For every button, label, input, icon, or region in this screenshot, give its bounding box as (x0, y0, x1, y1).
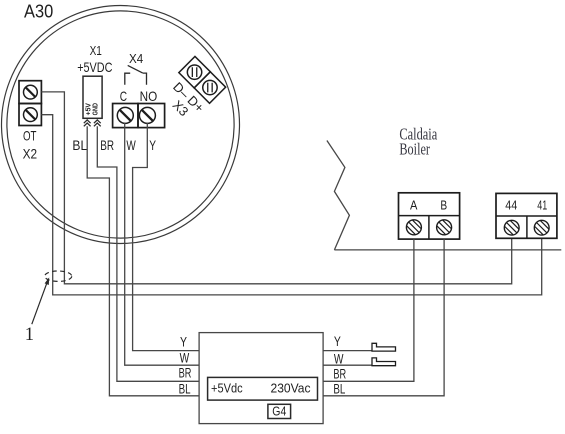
connector X1 body (83, 76, 102, 118)
enclosure A30 outer circle (2, 6, 240, 244)
svg-text:BR: BR (100, 137, 114, 153)
terminal block X4 NO cell (138, 104, 165, 128)
screw NO (139, 107, 155, 123)
svg-text:B: B (440, 199, 447, 213)
svg-text:W: W (180, 350, 190, 365)
callout 1 leader line (32, 279, 49, 325)
screw X3-2 (200, 77, 220, 97)
wire BL from X1 +5V pin to G4 (87, 126, 199, 396)
switch X4 contact C hook (125, 73, 130, 85)
svg-text:A30: A30 (24, 2, 53, 22)
svg-text:A: A (410, 199, 418, 213)
svg-text:NO: NO (140, 88, 158, 104)
svg-text:G4: G4 (272, 405, 286, 419)
svg-text:W: W (126, 137, 136, 153)
terminal block 44/41 body (496, 193, 557, 238)
screw C (117, 107, 133, 123)
pin GND chevrons (94, 120, 101, 126)
svg-text:GND: GND (90, 103, 99, 116)
screw X2-2 (24, 108, 38, 122)
screw X3-1 (184, 62, 204, 82)
svg-text:C: C (120, 88, 127, 104)
wire OT-b from X2 bottom screw to boiler 41 (41, 115, 541, 295)
switch X4 blade (128, 65, 143, 73)
wire W right of G4 (323, 364, 395, 366)
screw A (406, 220, 421, 235)
terminal block X2 (OT) (19, 81, 41, 126)
wire Y from contact NO to G4 (133, 123, 200, 351)
switch X4 contact NO post (143, 73, 147, 85)
wire W from contact C to G4 (125, 123, 199, 365)
svg-text:W: W (334, 352, 344, 367)
controller G4 outline (199, 333, 323, 424)
svg-text:+5Vdc: +5Vdc (211, 381, 243, 396)
svg-text:Y: Y (149, 137, 156, 153)
terminal block X3 (rotated -45deg) (179, 56, 226, 103)
boiler case bottom line (334, 249, 561, 251)
screw X2-1 (24, 85, 38, 99)
callout 1 arrowhead (45, 277, 50, 285)
wire OT-a from X2 top screw to boiler 44 (41, 92, 511, 284)
wire BL right from G4 to screw B (323, 239, 444, 396)
enclosure A30 inner circle (7, 11, 234, 238)
svg-text:BR: BR (179, 365, 192, 380)
svg-text:Y: Y (334, 334, 341, 349)
terminal block AB body (399, 193, 460, 239)
svg-text:44: 44 (505, 198, 517, 212)
screw B (437, 220, 452, 235)
svg-text:230Vac: 230Vac (271, 381, 311, 396)
svg-text:BL: BL (72, 137, 87, 153)
faston tab on W (372, 358, 396, 366)
svg-text:BL: BL (179, 381, 191, 396)
wire Y right of G4 (323, 350, 395, 352)
screw 44 (504, 220, 519, 235)
svg-text:+5VDC: +5VDC (77, 59, 112, 75)
screw 41 (534, 220, 549, 235)
svg-text:Boiler: Boiler (399, 140, 430, 159)
svg-text:41: 41 (537, 198, 547, 212)
faston tab on Y (372, 343, 396, 351)
svg-text:1: 1 (25, 325, 34, 345)
svg-text:X1: X1 (90, 43, 102, 58)
power module box (208, 377, 318, 400)
wire BR from X1 GND pin to G4 (97, 126, 199, 381)
svg-text:BR: BR (333, 366, 346, 381)
svg-text:X4: X4 (129, 52, 143, 66)
svg-text:OT: OT (23, 128, 37, 144)
pin +5V chevrons (84, 120, 91, 126)
G4 tag box (268, 404, 291, 418)
svg-text:BL: BL (333, 382, 345, 397)
boiler case zigzag (327, 141, 350, 250)
wire BR right from G4 to screw A (323, 239, 414, 381)
terminal block X4 C cell (113, 104, 138, 128)
callout 1 dashed ellipse (45, 271, 72, 281)
svg-text:Y: Y (180, 335, 187, 350)
svg-text:X2: X2 (23, 146, 38, 162)
